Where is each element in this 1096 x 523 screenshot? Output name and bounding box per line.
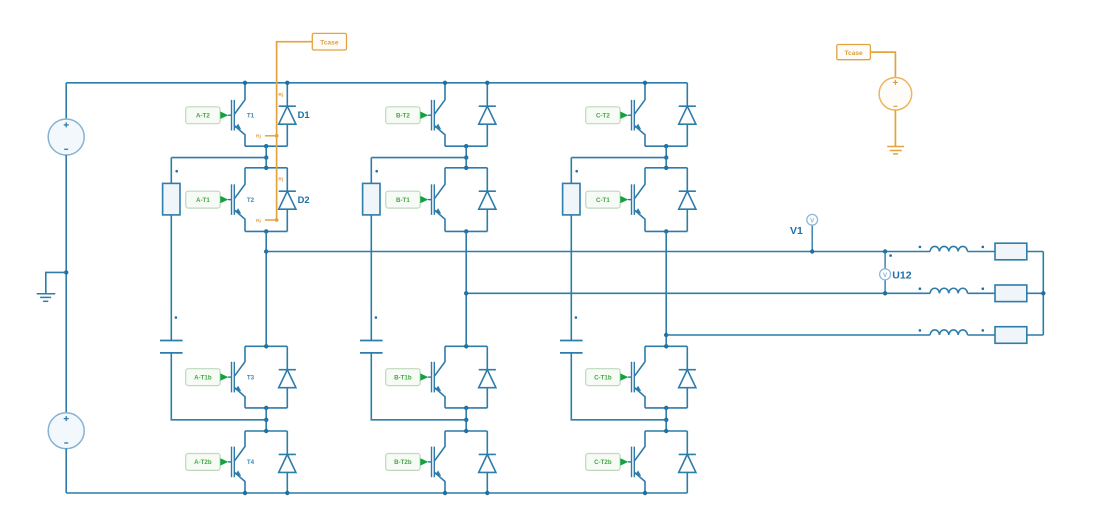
inductor LA	[930, 246, 967, 251]
wire node down to T2 leg C	[665, 158, 667, 168]
wire capacitor to T3-T4 node leg B	[371, 353, 466, 420]
inductor LC	[930, 330, 967, 335]
thermal ground	[887, 147, 904, 154]
ground symbol	[37, 272, 66, 301]
wire node to RC branch leg B	[371, 157, 466, 159]
igbt A-bot T4	[228, 431, 245, 493]
wire capacitor to T3-T4 node leg C	[571, 353, 666, 420]
svg-text:B-T1b: B-T1b	[394, 374, 412, 381]
thermal port label Tcase (ambient)	[837, 45, 871, 60]
svg-text:B-T1: B-T1	[396, 197, 410, 204]
resistor R A	[163, 183, 180, 215]
igbt B-low T3	[428, 346, 445, 408]
wire left rail middle	[65, 155, 67, 413]
gate label A-T1b	[186, 369, 229, 386]
wire T3 to T4 leg A	[265, 408, 267, 431]
wire T2 to T3 / output node leg A	[265, 231, 267, 346]
svg-text:V: V	[883, 272, 888, 279]
wire inductor to load resistor A	[968, 251, 996, 253]
gate label B-T1b	[386, 369, 429, 386]
wire resistor to capacitor leg A	[170, 215, 172, 341]
wire T1 emitter bus leg C	[645, 145, 687, 147]
wire bottom DC rail	[66, 492, 687, 494]
wire T3 emitter bus leg C	[645, 407, 687, 409]
wire T2 collector bus leg C	[645, 167, 687, 169]
capacitor C A	[160, 341, 183, 353]
svg-text:C-T1b: C-T1b	[594, 374, 612, 381]
wire T3 collector bus leg B	[445, 345, 487, 347]
voltmeter U12	[880, 269, 891, 280]
wire left rail lower	[65, 449, 67, 494]
wire node down to T2 leg B	[465, 158, 467, 168]
igbt B-top T1	[428, 83, 445, 146]
polarity dot load resistor B	[982, 287, 985, 290]
wire left rail upper	[65, 83, 67, 119]
diode B D-bot	[479, 431, 496, 493]
wire phase A output line	[266, 251, 930, 253]
wire load resistor B to star point	[1027, 292, 1044, 294]
svg-text:Rj: Rj	[278, 177, 283, 183]
svg-text:C-T1: C-T1	[596, 197, 610, 204]
wire node to resistor leg C	[570, 158, 572, 184]
polarity dot resistor leg B	[375, 170, 378, 173]
wire node down to T2 leg A	[265, 158, 267, 168]
wire T2 collector bus leg A	[245, 167, 287, 169]
diode D2	[279, 168, 296, 232]
resistor R C	[563, 183, 580, 215]
gate label C-T1b	[586, 369, 629, 386]
polarity dot capacitor leg C	[575, 316, 578, 319]
svg-text:Rj: Rj	[278, 92, 283, 98]
polarity dot resistor leg C	[575, 170, 578, 173]
node dots bottom rail leg B	[443, 491, 447, 495]
wire T4 collector bus leg B	[445, 430, 487, 432]
wire inductor to load resistor C	[968, 334, 996, 336]
node dots top rail leg B	[443, 81, 447, 85]
svg-text:A-T2: A-T2	[196, 113, 210, 120]
capacitor C C	[560, 341, 583, 353]
svg-text:Rj: Rj	[256, 134, 261, 140]
diode A D-low	[279, 346, 296, 408]
gate label C-T2b	[586, 454, 629, 471]
voltmeter U12 stubs	[884, 252, 886, 269]
wire T2 to T3 / output node leg B	[465, 231, 467, 346]
diode C D-mid	[679, 168, 696, 232]
svg-text:D2: D2	[298, 194, 310, 205]
wire resistor to capacitor leg B	[370, 215, 372, 341]
igbt B-mid T2	[428, 168, 445, 232]
gate label C-T1	[586, 191, 629, 208]
igbt C-mid T2	[628, 168, 645, 232]
wire resistor to capacitor leg C	[570, 215, 572, 341]
node dots bottom rail leg A	[243, 491, 247, 495]
svg-text:U12: U12	[892, 270, 911, 282]
capacitor C B	[360, 341, 383, 353]
svg-text:C-T2b: C-T2b	[594, 459, 612, 466]
wire T1 emitter bus leg B	[445, 145, 487, 147]
diode B D-mid	[479, 168, 496, 232]
igbt A-top T1	[228, 83, 245, 146]
gate label A-T2b	[186, 454, 229, 471]
diode B D-top	[479, 83, 496, 146]
svg-text:A-T2b: A-T2b	[194, 459, 212, 466]
star point junction	[1041, 291, 1045, 295]
wire T2 emitter bus leg B	[445, 230, 487, 232]
wire T2 to T3 / output node leg C	[665, 231, 667, 346]
thermal wire Tcase to source	[870, 52, 895, 77]
gate label A-T1	[186, 191, 229, 208]
dc voltage source V_dc2	[48, 413, 84, 449]
igbt A-mid T2	[228, 168, 245, 232]
resistor R B	[363, 183, 380, 215]
igbt A-low T3	[228, 346, 245, 408]
wire top DC rail	[66, 82, 687, 84]
diode A D-bot	[279, 431, 296, 493]
wire load resistor C to star point	[1027, 334, 1044, 336]
svg-text:A-T1: A-T1	[196, 197, 210, 204]
svg-text:T1: T1	[247, 112, 255, 119]
svg-text:D1: D1	[298, 109, 310, 120]
wire T3 to T4 leg B	[465, 408, 467, 431]
svg-text:Tcase: Tcase	[320, 39, 339, 46]
igbt C-bot T4	[628, 431, 645, 493]
diode D1	[279, 83, 296, 146]
wire phase C output line	[666, 334, 930, 336]
svg-text:T3: T3	[247, 374, 255, 381]
diode C D-bot	[679, 431, 696, 493]
wire node to RC branch leg A	[171, 157, 266, 159]
thermal temperature source	[879, 78, 912, 111]
polarity dot inductor LB left	[919, 287, 922, 290]
polarity dot load resistor C	[982, 329, 985, 332]
wire capacitor to T3-T4 node leg A	[171, 353, 266, 420]
wire to node leg C	[665, 146, 667, 157]
voltmeter U12 junction bottom	[883, 291, 887, 295]
wire star point bus	[1042, 252, 1044, 336]
wire to node leg B	[465, 146, 467, 157]
svg-text:B-T2b: B-T2b	[394, 459, 412, 466]
diode B D-low	[479, 346, 496, 408]
svg-text:V: V	[810, 217, 815, 224]
polarity dot resistor leg A	[175, 170, 178, 173]
polarity dot capacitor leg B	[375, 316, 378, 319]
voltmeter V1 stub	[811, 225, 813, 251]
gate label B-T1	[386, 191, 429, 208]
svg-text:V1: V1	[790, 225, 803, 237]
polarity dot inductor LC left	[919, 329, 922, 332]
polarity dot inductor LA left	[919, 246, 922, 249]
diode C D-low	[679, 346, 696, 408]
igbt C-top T1	[628, 83, 645, 146]
wire load resistor A to star point	[1027, 251, 1044, 253]
wire phase B output line	[466, 292, 930, 294]
thermal tap T1	[265, 135, 277, 137]
voltmeter V1	[807, 214, 818, 225]
thermal tap T2	[265, 219, 277, 221]
wire to node leg A	[265, 146, 267, 157]
thermal port label Tcase (leg A)	[312, 33, 346, 50]
wire T2 emitter bus leg A	[245, 230, 287, 232]
wire node to resistor leg B	[370, 158, 372, 184]
node dots bottom rail leg C	[643, 491, 647, 495]
svg-text:Rj: Rj	[256, 218, 261, 224]
load resistor RB	[995, 285, 1027, 302]
svg-text:B-T2: B-T2	[396, 113, 410, 120]
voltmeter U12 junction top	[883, 249, 887, 253]
diode C D-top	[679, 83, 696, 146]
svg-text:Tcase: Tcase	[844, 50, 863, 57]
wire T3 collector bus leg A	[245, 345, 287, 347]
igbt C-low T3	[628, 346, 645, 408]
wire node to RC branch leg C	[571, 157, 666, 159]
wire inductor to load resistor B	[968, 292, 996, 294]
wire T4 collector bus leg C	[645, 430, 687, 432]
wire node to resistor leg A	[170, 158, 172, 184]
svg-text:C-T2: C-T2	[596, 113, 610, 120]
gate label C-T2	[586, 107, 629, 124]
wire T2 emitter bus leg C	[645, 230, 687, 232]
node dots top rail leg A	[243, 81, 247, 85]
wire T3 collector bus leg C	[645, 345, 687, 347]
dc voltage source V_dc1	[48, 119, 84, 155]
wire T3 emitter bus leg B	[445, 407, 487, 409]
gate label B-T2b	[386, 454, 429, 471]
gate label A-T2	[186, 107, 229, 124]
svg-text:A-T1b: A-T1b	[194, 374, 212, 381]
wire T4 collector bus leg A	[245, 430, 287, 432]
load resistor RC	[995, 327, 1027, 344]
svg-text:T2: T2	[247, 197, 255, 204]
polarity dot capacitor leg A	[175, 316, 178, 319]
gate label B-T2	[386, 107, 429, 124]
wire T3 to T4 leg C	[665, 408, 667, 431]
ground node junction	[64, 270, 68, 274]
node dots top rail leg C	[643, 81, 647, 85]
wire T1 emitter bus leg A	[245, 145, 287, 147]
thermal wire source to ground	[894, 110, 896, 146]
svg-text:T4: T4	[247, 459, 255, 466]
igbt B-bot T4	[428, 431, 445, 493]
voltmeter U12 polarity dot	[889, 254, 892, 257]
wire T3 emitter bus leg A	[245, 407, 287, 409]
polarity dot load resistor A	[982, 246, 985, 249]
load resistor RA	[995, 243, 1027, 260]
inductor LB	[930, 288, 967, 293]
thermal wire Tcase to leg A	[277, 42, 313, 220]
wire T2 collector bus leg B	[445, 167, 487, 169]
